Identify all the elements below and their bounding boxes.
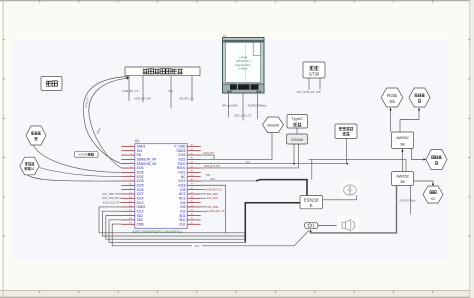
- LCD net labels: [222, 103, 267, 117]
- svg-text:OUT_GT30_CS: OUT_GT30_CS: [297, 91, 315, 94]
- wire CH340 net to AW9523B lower: [309, 160, 407, 180]
- svg-text:CH340: CH340: [291, 137, 304, 142]
- svg-text:KX/REST/Black: KX/REST/Black: [400, 201, 417, 203]
- svg-text:IO6: IO6: [169, 89, 174, 93]
- svg-text:1: 1: [33, 167, 35, 171]
- svg-text:IO6_INT_CL: IO6_INT_CL: [179, 96, 194, 100]
- svg-text:AW952: AW952: [396, 173, 409, 178]
- svg-text:3B: 3B: [400, 179, 405, 184]
- wire IR transmit to AW9523B: [400, 108, 420, 132]
- svg-text:IO2_HKM: IO2_HKM: [208, 206, 219, 209]
- bus wire loop CMD to jack: [112, 224, 309, 246]
- audio jack connector: [305, 222, 319, 228]
- wire TypeC to CH340: [296, 128, 298, 134]
- net label IO15_EXT_TX: [201, 210, 225, 213]
- svg-text:3B: 3B: [400, 141, 405, 146]
- net label IO2_HKM: [201, 206, 218, 209]
- ESP32 footprint label: [133, 229, 183, 233]
- accelerometer stub wire: [346, 139, 348, 164]
- svg-text:SCL_MCU: SCL_MCU: [207, 197, 219, 200]
- svg-text:IN2/REST/Black: IN2/REST/Black: [248, 103, 267, 107]
- keys hexagon 按键 X2: [423, 186, 443, 203]
- svg-text:RGB: RGB: [387, 93, 397, 98]
- wire arc from header to ESP32 EN pin: [83, 77, 128, 164]
- IR receive hexagon 红外接收: [26, 126, 46, 145]
- net label SDA_MCU: [201, 193, 219, 196]
- header stub net labels: [122, 89, 194, 101]
- GT30 stub wires: [309, 78, 320, 90]
- svg-text:ES8218: ES8218: [304, 197, 319, 202]
- bus wire loop GND2: [99, 207, 245, 233]
- net label CAL on bus: [192, 244, 202, 248]
- LCD module U1 1.44 SPI 128x128: [223, 35, 265, 94]
- wire between AW9523B chips: [401, 149, 403, 172]
- audio codec box ES8218E: [300, 196, 323, 209]
- net label IN2/REST/Black: [400, 201, 417, 203]
- svg-text:128*128 V2.1: 128*128 V2.1: [236, 60, 251, 63]
- USB-serial box CH340: [287, 134, 308, 144]
- svg-text:E: E: [310, 203, 313, 208]
- wire IR receive to ESP32: [33, 145, 121, 172]
- bus wire loop IO13: [102, 211, 245, 236]
- svg-text:IO34_INT_TX: IO34_INT_TX: [122, 89, 138, 93]
- svg-text:CAL: CAL: [195, 245, 200, 248]
- svg-text:IO23_INT: IO23_INT: [204, 152, 215, 155]
- svg-text:SCL_HSD: SCL_HSD: [102, 193, 114, 196]
- svg-text:SCL: SCL: [211, 178, 216, 181]
- wire light sensor second to ESP32: [27, 175, 121, 181]
- power supply box 电源: [41, 77, 62, 91]
- dupont header box 杜邦线排针接口 J1: [125, 67, 200, 76]
- thick wire bus to ES8218E left: [245, 203, 300, 243]
- svg-text:IO35_INT_RX: IO35_INT_RX: [135, 96, 152, 100]
- svg-text:IO15_EXT_TX: IO15_EXT_TX: [209, 210, 225, 213]
- accelerometer box 加速度传感器: [335, 124, 357, 139]
- net label MOSI on arc: [96, 127, 102, 134]
- wire arc from header to ESP32 SENSOR pin: [89, 78, 130, 168]
- net label SCL_HSD: [102, 193, 121, 196]
- net label IO12_LCD_CP: [103, 202, 122, 205]
- svg-text:Scan Direction: Scan Direction: [235, 64, 251, 67]
- wire IO19 to ES8218E thick: [201, 178, 307, 195]
- svg-text:mBuild: mBuild: [267, 122, 279, 127]
- wire TXD0 to CH340: [201, 144, 349, 165]
- svg-text:U3: U3: [135, 139, 139, 143]
- five-way joystick hexagon 五向摇杆: [426, 150, 447, 170]
- font library box 字库 GT30 U5: [303, 62, 325, 78]
- bus wire loop SD2: [106, 216, 246, 240]
- svg-text:(2.4)9cm: (2.4)9cm: [238, 68, 247, 71]
- microphone icon: [342, 182, 359, 199]
- GT30 net labels: [297, 91, 322, 94]
- svg-text:GT30: GT30: [309, 72, 320, 77]
- arrow into header corner: [126, 76, 129, 79]
- svg-text:IO18_EXT_CS: IO18_EXT_CS: [206, 189, 222, 192]
- wire IO18 down to bus: [201, 185, 226, 233]
- wire RGB X5 to AW9523B: [389, 108, 391, 132]
- svg-text:IO27_ATM_DP: IO27_ATM_DP: [102, 197, 119, 200]
- arrow into jack: [309, 229, 311, 232]
- AW9523B lower stub wire: [410, 186, 412, 215]
- wire RXD0 to CH340: [201, 144, 299, 168]
- net label Serial_TX on arc: [85, 97, 90, 109]
- header pin stub wires: [129, 76, 192, 109]
- svg-text:IO5: IO5: [317, 91, 322, 94]
- svg-text:X2: X2: [431, 196, 437, 201]
- svg-text:IO32_LCD_CS: IO32_LCD_CS: [234, 113, 252, 117]
- IO expander U7 AW9523B lower: [392, 172, 414, 186]
- svg-text:1.44SPI: 1.44SPI: [239, 56, 248, 59]
- sensor label box KY038: [75, 152, 99, 158]
- net label IO27_ATM_DP: [102, 197, 121, 200]
- svg-text:IO22_EXT_RX: IO22_EXT_RX: [204, 165, 220, 168]
- wire AW9523B to keys: [414, 181, 435, 186]
- svg-text:SPI.sck.MISO: SPI.sck.MISO: [222, 103, 238, 107]
- svg-text:CMD: CMD: [137, 222, 145, 226]
- wire AW9523B to joystick: [412, 149, 427, 161]
- bus wire loop SD3: [109, 220, 245, 243]
- LCD pin wires: [229, 93, 258, 120]
- RGB X5 hexagon connector: [381, 88, 403, 107]
- svg-text:IO5: IO5: [206, 174, 211, 177]
- svg-text:AW952: AW952: [396, 135, 409, 140]
- wire jack to AW9523B lower: [311, 186, 397, 233]
- wire jack to speaker: [318, 225, 337, 227]
- svg-text:SDA_MCU: SDA_MCU: [207, 193, 219, 196]
- svg-text:IO1: IO1: [246, 161, 251, 164]
- wire light sensor to ESP32: [39, 168, 121, 177]
- TypeC port box TypeC接口: [287, 115, 308, 129]
- net label SCL_MCU: [201, 197, 219, 200]
- mBuild port hexagon: [263, 117, 284, 133]
- wire ES8218E to microphone: [323, 195, 357, 200]
- wire IO23 to mBuild merge: [201, 152, 215, 159]
- wire IO22 to mBuild: [201, 133, 272, 160]
- net label IO5 stub: [206, 174, 211, 177]
- light sensor hexagon 光线传感器: [20, 157, 39, 175]
- ESP32 module U3: [121, 139, 200, 228]
- IR transmit hexagon 红外发射: [409, 88, 430, 107]
- IO expander U6 AW9523B upper: [392, 132, 414, 149]
- svg-text:CLK: CLK: [179, 222, 186, 226]
- svg-text:X5: X5: [389, 99, 395, 104]
- svg-text:IO12_LCD_CP: IO12_LCD_CP: [103, 202, 120, 205]
- speaker icon: [337, 216, 359, 234]
- net label IO18_EXT_CS: [201, 189, 223, 192]
- svg-text:TypeC: TypeC: [291, 116, 303, 121]
